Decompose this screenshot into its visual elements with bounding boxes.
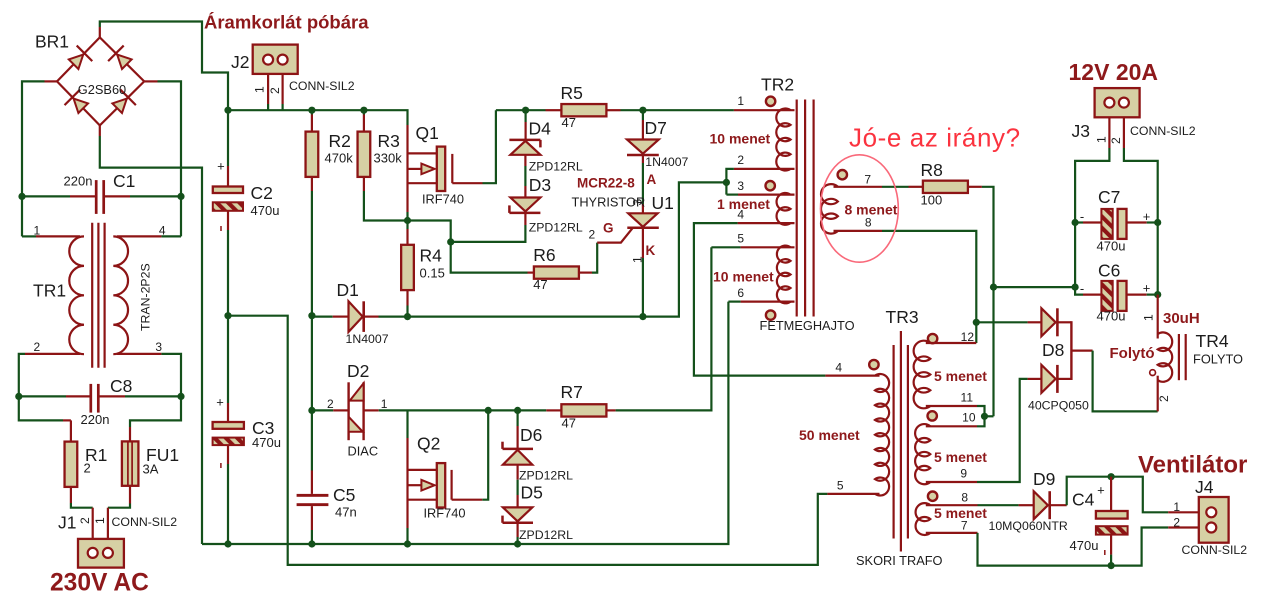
- label R2: [329, 131, 351, 151]
- resistor R7: [561, 404, 606, 416]
- pin 10 of TR3: [962, 411, 976, 425]
- svg-text:+: +: [1143, 281, 1151, 296]
- minus sign of C6: [1080, 281, 1084, 296]
- svg-text:TR4: TR4: [1196, 331, 1229, 351]
- label R3: [378, 131, 400, 151]
- value 47n of C5: [335, 505, 357, 520]
- junction C1 left: [18, 193, 25, 200]
- label C8: [110, 376, 132, 396]
- junction node A at J2 bus: [224, 107, 231, 114]
- unconnected pin marker of TR3: [928, 334, 937, 343]
- junction C4 minus: [1108, 562, 1115, 569]
- svg-text:G: G: [603, 221, 614, 236]
- svg-text:1: 1: [737, 94, 744, 108]
- wire C7 plus lead: [1127, 221, 1158, 223]
- unconnected pin marker of TR2: [766, 181, 775, 190]
- wire TR3 pin11 lead: [926, 406, 985, 416]
- junction TR2 pin8 TR3 pin12 D8 node: [973, 319, 980, 326]
- junction U1 cathode bus: [639, 313, 646, 320]
- capacitor C6: [1101, 281, 1126, 311]
- pin A of U1: [647, 172, 657, 187]
- pin 12 of TR3: [961, 330, 975, 344]
- svg-text:12: 12: [961, 330, 975, 344]
- double diode D8: [1041, 308, 1071, 393]
- svg-text:2: 2: [1173, 516, 1180, 530]
- unconnected pin marker of TR3: [928, 492, 937, 501]
- junction C8 right: [177, 393, 184, 400]
- label D9: [1033, 469, 1055, 489]
- unconnected pin marker of TR3: [869, 360, 878, 369]
- connector J3 CONN-SIL2: [1095, 88, 1140, 117]
- wire TR3 pin9 lead to D8: [926, 379, 1028, 482]
- junction C8 left: [15, 393, 22, 400]
- svg-text:11: 11: [961, 391, 974, 405]
- wire C5 bottom lead: [311, 506, 313, 544]
- value 330k of R3: [374, 151, 403, 166]
- svg-text:2: 2: [268, 87, 282, 94]
- minus sign of C7: [1080, 209, 1084, 224]
- fuse FU1: [122, 441, 138, 485]
- polarity dot of TR4: [1150, 370, 1156, 376]
- diode D9: [1034, 491, 1050, 519]
- junction C6 plus: [1154, 291, 1161, 298]
- wire R8 right to C6 node: [968, 187, 994, 416]
- capacitor C7: [1101, 209, 1126, 239]
- value CONN-SIL2 of J3: [1130, 124, 1196, 138]
- wire TR2 pin7 lead to R8: [834, 186, 909, 188]
- label R7: [561, 382, 583, 402]
- pin 5 of TR3: [837, 479, 844, 493]
- value CONN-SIL2 of J1: [112, 515, 178, 529]
- svg-text:9: 9: [960, 467, 967, 481]
- label D3: [529, 175, 551, 195]
- label J1: [58, 513, 76, 533]
- wire J4 pin2 lead: [1168, 526, 1199, 528]
- label TR1: [33, 281, 66, 301]
- svg-text:+: +: [1143, 209, 1151, 224]
- junction Q2 on ground rail: [404, 540, 411, 547]
- svg-text:K: K: [646, 243, 656, 258]
- wire R2 top stub: [311, 110, 313, 131]
- pin 3 of U1: [631, 199, 645, 206]
- svg-text:1: 1: [1173, 500, 1180, 514]
- svg-text:SKORI TRAFO: SKORI TRAFO: [856, 553, 943, 568]
- value 470u of C2: [251, 203, 280, 218]
- svg-text:-: -: [1080, 281, 1084, 296]
- wire D8 output to TR4 pin2: [1071, 351, 1157, 412]
- label Q2: [417, 434, 440, 454]
- svg-text:2: 2: [1109, 137, 1123, 144]
- inductor TR4: [1158, 332, 1186, 381]
- value TRAN-2P2S of TR1: [139, 263, 153, 331]
- svg-text:8 menet: 8 menet: [845, 202, 898, 218]
- svg-text:470u: 470u: [1070, 538, 1099, 553]
- wire BR1 bottom to ground rail: [100, 136, 202, 544]
- label R4: [420, 246, 443, 266]
- connector J1 CONN-SIL2: [78, 539, 124, 568]
- svg-text:C8: C8: [110, 376, 132, 396]
- wire TR2 pin4 lead to TR3 pin4: [694, 223, 880, 376]
- svg-text:TR1: TR1: [33, 281, 66, 301]
- svg-text:+: +: [217, 158, 225, 173]
- svg-text:12V 20A: 12V 20A: [1069, 59, 1159, 85]
- svg-text:470u: 470u: [251, 203, 280, 218]
- value G2SB60 of BR1: [78, 82, 126, 97]
- label 230V AC: [50, 570, 149, 597]
- zener diode D4: [509, 140, 540, 155]
- svg-text:330k: 330k: [374, 151, 403, 166]
- plus sign of C6: [1143, 281, 1151, 296]
- svg-text:0.15: 0.15: [420, 266, 445, 281]
- wire D4 to D3: [524, 155, 526, 198]
- svg-text:1: 1: [34, 224, 41, 238]
- wire TR2 pin5 lead: [711, 246, 794, 248]
- wire R4 bottom to D1 bus: [406, 290, 408, 317]
- label C4: [1072, 490, 1095, 510]
- junction D4 top: [522, 107, 529, 114]
- junction C3 on ground rail: [224, 540, 231, 547]
- pin 2 of TR4: [1157, 395, 1171, 402]
- wire C5 top lead: [311, 410, 313, 494]
- junction D2 node: [308, 407, 315, 414]
- value ZPD12RL of D6: [519, 469, 573, 483]
- wire D7 to U1 anode: [642, 155, 644, 213]
- label D1: [337, 280, 359, 300]
- wire TR3 pin8 lead to D9: [926, 504, 1034, 506]
- value 47 of R5: [562, 115, 576, 130]
- junction D5 on ground rail: [514, 540, 521, 547]
- svg-text:6: 6: [737, 286, 744, 300]
- svg-text:IRF740: IRF740: [422, 192, 464, 207]
- wire R7 left lead: [546, 409, 561, 411]
- junction TR2 pin2-3 node: [723, 179, 730, 186]
- resistor R2: [306, 132, 319, 177]
- wire D2 right lead: [364, 409, 547, 411]
- wire R4 top stub: [406, 221, 408, 245]
- wire C1 right lead: [105, 195, 181, 197]
- svg-text:3: 3: [631, 199, 645, 206]
- value DIAC of D2: [348, 444, 379, 459]
- wire R1 top stub: [70, 420, 72, 441]
- label D6: [520, 425, 542, 445]
- wire D1 bus right: [364, 316, 643, 318]
- wire C8 right lead: [100, 395, 182, 397]
- winding label 5 menet upper: [934, 368, 987, 384]
- label Q1: [416, 123, 439, 143]
- svg-text:220n: 220n: [64, 174, 93, 189]
- junction C4 plus: [1108, 473, 1115, 480]
- value 47 of R7: [562, 416, 576, 431]
- wire TR1 pin4 lead: [117, 235, 181, 237]
- wire C4 bottom lead: [1110, 535, 1112, 566]
- label R1: [85, 445, 107, 465]
- wire FU1 bottom to J1 pin1: [108, 486, 130, 539]
- value IRF740 of Q1: [422, 192, 464, 207]
- plus sign of C2: [217, 158, 225, 173]
- svg-text:Q1: Q1: [416, 123, 439, 143]
- svg-text:10 menet: 10 menet: [710, 131, 771, 147]
- value 220n of C1: [64, 174, 93, 189]
- pin 3 of TR2: [737, 179, 744, 193]
- svg-text:3: 3: [155, 340, 162, 354]
- value 470u of C7: [1097, 239, 1126, 254]
- bridge rectifier BR1: [45, 27, 158, 136]
- pin 4 of TR1: [159, 224, 166, 238]
- label D8: [1042, 340, 1064, 360]
- svg-text:5 menet: 5 menet: [934, 368, 987, 384]
- svg-text:2: 2: [737, 153, 744, 167]
- value IRF740 of Q2: [424, 506, 466, 521]
- svg-text:ZPD12RL: ZPD12RL: [519, 469, 573, 483]
- svg-text:U1: U1: [652, 193, 674, 213]
- svg-text:FETMEGHAJTO: FETMEGHAJTO: [760, 318, 855, 333]
- label 30uH: [1163, 310, 1200, 327]
- svg-text:ZPD12RL: ZPD12RL: [529, 221, 583, 235]
- pin 4 of TR2: [737, 208, 744, 222]
- transformer TR2: [776, 100, 838, 317]
- wire C8 left lead: [19, 395, 90, 397]
- svg-text:J1: J1: [58, 513, 76, 533]
- svg-text:+: +: [1097, 483, 1105, 498]
- wire R3 bottom to gate node B: [364, 177, 408, 221]
- pin 2 of U1: [589, 228, 596, 242]
- wire R8 left lead: [909, 186, 923, 188]
- svg-text:A: A: [647, 172, 657, 187]
- value FOLYTO of TR4: [1193, 352, 1243, 367]
- svg-text:2: 2: [1157, 395, 1171, 402]
- svg-text:1: 1: [253, 86, 267, 93]
- svg-text:220n: 220n: [81, 412, 110, 427]
- svg-text:47: 47: [562, 115, 576, 130]
- winding label 5 menet lower: [934, 505, 987, 521]
- label R5: [561, 83, 583, 103]
- label D5: [521, 483, 543, 503]
- wire TR1 pin3 lead: [117, 354, 181, 397]
- wire TR3 pin7 lead to fan bus: [926, 528, 1168, 566]
- label TR2: [761, 75, 794, 95]
- capacitor C1: [96, 180, 104, 214]
- value 470k of R2: [325, 151, 354, 166]
- svg-text:D9: D9: [1033, 469, 1055, 489]
- pin 1 of U1: [631, 256, 645, 263]
- svg-text:D1: D1: [337, 280, 359, 300]
- svg-text:D5: D5: [521, 483, 543, 503]
- wire C6 minus lead: [1083, 294, 1101, 296]
- wire J2 pin2 to bus: [282, 74, 284, 110]
- junction R2 top: [308, 107, 315, 114]
- value CONN-SIL2 of J2: [289, 79, 355, 93]
- plus sign of C3: [216, 394, 224, 409]
- svg-text:Ventilátor: Ventilátor: [1138, 452, 1247, 479]
- pin 1 of TR1: [34, 224, 41, 238]
- svg-text:TRAN-2P2S: TRAN-2P2S: [139, 263, 153, 331]
- svg-text:470u: 470u: [1097, 309, 1126, 324]
- wire J3 pin2 to C7 plus rail: [1124, 117, 1158, 294]
- label C7: [1098, 187, 1120, 207]
- wire node B to node C: [408, 221, 451, 242]
- label FU1: [146, 445, 179, 465]
- pin 6 of TR2: [737, 286, 744, 300]
- pin K of U1: [646, 243, 656, 258]
- diode D7: [627, 140, 659, 156]
- junction C6 minus rail: [1072, 284, 1079, 291]
- wire R6 left lead: [528, 272, 534, 274]
- svg-text:J4: J4: [1195, 477, 1214, 497]
- label D4: [529, 119, 552, 139]
- value ZPD12RL of D4: [529, 159, 583, 173]
- svg-text:47: 47: [533, 277, 547, 292]
- svg-text:TR2: TR2: [761, 75, 794, 95]
- svg-text:1N4007: 1N4007: [346, 332, 389, 346]
- value ZPD12RL of D5: [519, 528, 573, 542]
- label D7: [645, 118, 667, 138]
- junction C7 plus: [1154, 219, 1161, 226]
- svg-text:1: 1: [93, 517, 107, 524]
- svg-text:3: 3: [737, 179, 744, 193]
- wire R7 right to TR2 pin5: [606, 247, 711, 410]
- wire TR3 pin5 lead: [827, 493, 879, 495]
- wire R6 right to U1 gate: [579, 243, 597, 273]
- wire mid bus to TR2 pins: [643, 182, 727, 316]
- junction node C: [447, 238, 454, 245]
- zener diode D3: [509, 198, 540, 213]
- wire TR2 pin8 lead: [834, 231, 977, 343]
- wire D7 top lead: [642, 110, 644, 139]
- wire ground rail: [202, 302, 728, 544]
- minus tick of C4: [1104, 550, 1106, 555]
- svg-text:R6: R6: [533, 245, 555, 265]
- svg-text:470k: 470k: [325, 151, 354, 166]
- svg-text:C6: C6: [1098, 261, 1120, 281]
- wire D4 top lead: [524, 110, 526, 140]
- svg-text:10 menet: 10 menet: [713, 269, 774, 285]
- winding label 10 menet: [710, 131, 771, 147]
- capacitor C8: [91, 384, 99, 413]
- connector J2 CONN-SIL2: [253, 45, 298, 74]
- value 470u of C4: [1070, 538, 1099, 553]
- pin 3 of TR1: [155, 340, 162, 354]
- value ZPD12RL of D3: [529, 221, 583, 235]
- wire BR1 top to J2 bus: [100, 22, 228, 111]
- svg-text:40CPQ050: 40CPQ050: [1028, 399, 1089, 413]
- plus sign of C4: [1097, 483, 1105, 498]
- resistor R1: [65, 442, 78, 487]
- resistor R4: [401, 245, 414, 290]
- svg-text:CONN-SIL2: CONN-SIL2: [1182, 543, 1248, 557]
- wire TR2 pin3 lead: [726, 194, 794, 196]
- wire D2 left lead: [312, 409, 349, 411]
- label TR3: [886, 307, 919, 327]
- pin 1 of TR2: [737, 94, 744, 108]
- svg-text:Jó-e az irány?: Jó-e az irány?: [849, 123, 1021, 153]
- wire node C to D3 bottom: [451, 225, 526, 242]
- pin 2 of TR1: [34, 340, 41, 354]
- svg-text:5 menet: 5 menet: [934, 505, 987, 521]
- svg-text:47n: 47n: [335, 505, 357, 520]
- label J3: [1072, 121, 1090, 141]
- wire U1 cathode to mid bus: [642, 228, 644, 317]
- wire TR3 pin10 lead: [926, 416, 985, 426]
- svg-text:CONN-SIL2: CONN-SIL2: [1130, 124, 1196, 138]
- wire C6 plus lead: [1127, 294, 1158, 296]
- title Aramkorlat pobara: [204, 12, 369, 33]
- junction C7 minus: [1072, 219, 1079, 226]
- svg-text:CONN-SIL2: CONN-SIL2: [112, 515, 178, 529]
- svg-text:30uH: 30uH: [1163, 310, 1200, 327]
- pin 11 of TR3: [961, 391, 974, 405]
- wire TR1 pin1 lead: [22, 235, 80, 237]
- winding label 1 menet: [717, 196, 770, 212]
- junction D6 top node: [514, 407, 521, 414]
- wire D8 top anode net: [976, 321, 1041, 323]
- svg-text:2: 2: [84, 461, 91, 476]
- svg-text:R4: R4: [420, 246, 443, 266]
- minus tick of C3: [220, 463, 222, 468]
- svg-text:R8: R8: [921, 160, 943, 180]
- pin 8 of TR3: [961, 491, 968, 505]
- wire TR2 pin1 lead: [734, 109, 795, 111]
- svg-text:R2: R2: [329, 131, 351, 151]
- svg-text:D4: D4: [529, 119, 552, 139]
- junction C2 bottom node: [224, 312, 231, 319]
- svg-text:5 menet: 5 menet: [934, 449, 987, 465]
- transistor Q1: [408, 125, 483, 221]
- winding label 10 menet lower: [713, 269, 774, 285]
- wire TR2 pin2 lead: [726, 169, 794, 195]
- value 2 of R1: [84, 461, 91, 476]
- junction C5 on ground rail: [308, 540, 315, 547]
- pin 7 of TR2: [864, 173, 871, 187]
- wire BR1 left to TR1 pin1 column: [22, 81, 45, 236]
- pin 2 of D2: [327, 397, 334, 411]
- svg-text:2: 2: [327, 397, 334, 411]
- value 10MQ060NTR of D9: [989, 519, 1068, 533]
- winding label 50 menet: [799, 427, 860, 443]
- wire J3 pin1 to C7 minus rail: [1075, 117, 1109, 294]
- unconnected pin marker of TR2: [766, 97, 775, 106]
- pin 2 of J3: [1109, 137, 1123, 144]
- pin 1 of D2: [381, 397, 388, 411]
- value 47 of R6: [533, 277, 547, 292]
- pin 2 of J1: [78, 517, 92, 524]
- wire J2 pin1 to bus: [267, 74, 269, 110]
- pin 1 of J4: [1173, 500, 1180, 514]
- value 1N4007 of D1: [346, 332, 389, 346]
- wire C1 left lead: [22, 195, 95, 197]
- svg-text:2: 2: [34, 340, 41, 354]
- zener diode D5: [503, 507, 534, 522]
- winding label 5 menet middle: [934, 449, 987, 465]
- svg-text:1N4007: 1N4007: [645, 155, 688, 169]
- label C5: [333, 485, 355, 505]
- svg-text:2: 2: [589, 228, 596, 242]
- value 470u of C6: [1097, 309, 1126, 324]
- label U1: [652, 193, 674, 213]
- pin 8 of TR2: [865, 216, 872, 230]
- winding label 8 menet: [845, 202, 898, 218]
- wire C2 bottom lead: [227, 211, 229, 316]
- wire TR4 pin1 lead: [1157, 295, 1159, 339]
- svg-text:4: 4: [835, 361, 842, 375]
- capacitor C5: [297, 494, 329, 506]
- value MCR22-8 of U1: [577, 176, 635, 191]
- label D2: [347, 361, 369, 381]
- label J4: [1195, 477, 1214, 497]
- svg-text:C2: C2: [251, 183, 273, 203]
- svg-text:50 menet: 50 menet: [799, 427, 860, 443]
- svg-text:C1: C1: [113, 171, 135, 191]
- label BR1: [35, 32, 69, 52]
